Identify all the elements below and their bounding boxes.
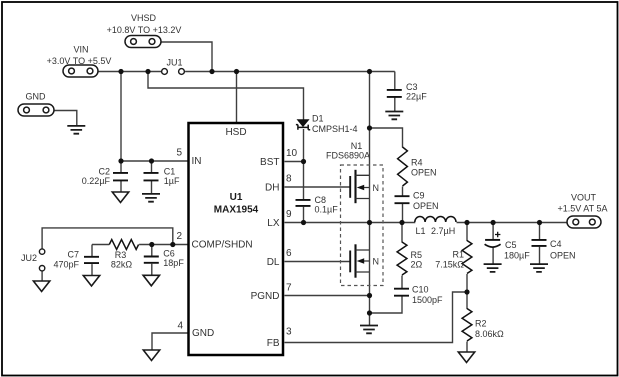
- node VIN-C2 junction: [118, 69, 123, 74]
- capacitor C4: [532, 239, 576, 261]
- capacitor C3: [387, 82, 427, 102]
- svg-text:C6: C6: [163, 249, 175, 259]
- wire VIN to IN node: [120, 72, 122, 162]
- inductor L1: [415, 217, 456, 237]
- svg-text:U1: U1: [230, 192, 243, 203]
- jumper JU2: [21, 249, 45, 271]
- svg-text:OPEN: OPEN: [411, 168, 437, 178]
- connector VIN: [47, 45, 112, 78]
- svg-text:VOUT: VOUT: [571, 193, 597, 203]
- wire C4 stems: [539, 223, 541, 265]
- node R4 branch junction: [367, 125, 372, 130]
- svg-text:JU2: JU2: [21, 253, 37, 263]
- svg-text:+1.5V AT 5A: +1.5V AT 5A: [558, 204, 608, 214]
- wire C1 stems: [151, 161, 153, 194]
- node LX-R1 junction: [464, 220, 469, 225]
- svg-text:BST: BST: [260, 157, 279, 168]
- wire IN pin5: [121, 160, 188, 162]
- capacitor C9: [395, 191, 439, 212]
- wire HSD drop: [236, 72, 238, 124]
- jumper JU1: [162, 58, 185, 75]
- wire GND connector stem: [55, 111, 77, 126]
- IC U1 MAX1954: [189, 123, 284, 355]
- svg-text:L1: L1: [416, 226, 426, 236]
- wire C3 ground stem: [394, 97, 396, 112]
- resistor R4: [398, 147, 437, 186]
- wire C6 stems: [151, 245, 153, 276]
- ground GND pin4 triangle: [143, 350, 159, 361]
- wire C2 stems: [120, 161, 122, 193]
- svg-text:PGND: PGND: [251, 291, 280, 302]
- node COMP-C6 junction: [149, 242, 154, 247]
- capacitor C10: [394, 285, 443, 306]
- node LX-R4 junction: [399, 220, 404, 225]
- wire R2 leads: [466, 292, 468, 353]
- wire N1 drain column: [369, 72, 371, 314]
- resistor R1: [435, 241, 472, 274]
- node IN-C1 junction: [149, 158, 154, 163]
- svg-text:C2: C2: [98, 167, 110, 177]
- svg-text:C7: C7: [67, 250, 79, 260]
- wire VHSD drop: [162, 42, 213, 72]
- ground C6 triangle: [143, 275, 159, 286]
- wire C5 stems: [492, 223, 494, 265]
- wire R4 branch: [370, 128, 403, 223]
- connector VOUT: [558, 193, 608, 229]
- ground C1: [142, 194, 160, 202]
- ground R2 triangle: [458, 352, 474, 363]
- capacitor C6: [144, 249, 185, 269]
- svg-text:R1: R1: [452, 250, 464, 260]
- ground GND connector: [67, 126, 85, 134]
- diode D1 CMPSH1-4: [296, 114, 358, 134]
- svg-text:C5: C5: [505, 240, 517, 250]
- ground JU2 triangle: [33, 281, 49, 292]
- svg-text:82kΩ: 82kΩ: [111, 260, 133, 270]
- svg-text:0.1µF: 0.1µF: [315, 205, 339, 215]
- svg-text:C3: C3: [406, 82, 418, 92]
- wire R5 C10 branch: [370, 223, 403, 314]
- wire PGND: [285, 295, 370, 297]
- wire GND pin4: [152, 333, 188, 351]
- svg-text:HSD: HSD: [225, 127, 246, 138]
- svg-text:OPEN: OPEN: [550, 251, 576, 261]
- transistor N1 upper MOSFET: [350, 170, 379, 203]
- svg-text:DH: DH: [265, 183, 279, 194]
- resistor R3: [109, 240, 138, 270]
- wire DL to lower gate: [285, 261, 350, 263]
- node VIN-D1 junction: [145, 69, 150, 74]
- ground C2 triangle: [112, 192, 128, 203]
- svg-text:+10.8V TO +13.2V: +10.8V TO +13.2V: [107, 25, 182, 35]
- ground C4: [530, 264, 548, 272]
- svg-text:1500pF: 1500pF: [412, 295, 443, 305]
- svg-text:10: 10: [286, 148, 298, 159]
- wire VIN to D1 anode: [148, 72, 304, 121]
- node VOUT-C4 junction: [537, 220, 542, 225]
- wire JU2 ground stem: [41, 271, 43, 281]
- svg-text:18pF: 18pF: [163, 258, 184, 268]
- wire LX rail: [285, 222, 568, 224]
- node N1 drain top junction: [367, 69, 372, 74]
- svg-text:C10: C10: [412, 285, 429, 295]
- svg-text:N1: N1: [351, 141, 363, 151]
- svg-text:6: 6: [286, 248, 292, 259]
- svg-text:3: 3: [286, 327, 292, 338]
- capacitor C1: [144, 167, 180, 187]
- svg-text:C8: C8: [315, 195, 327, 205]
- svg-text:IN: IN: [192, 156, 202, 167]
- svg-text:8: 8: [286, 174, 292, 185]
- wire C7 stems: [91, 245, 93, 277]
- svg-text:GND: GND: [26, 92, 47, 102]
- wire JU2 loop: [42, 228, 173, 250]
- svg-text:N: N: [373, 257, 380, 267]
- wire PGND ground stem: [369, 313, 371, 326]
- svg-text:FDS6890A: FDS6890A: [326, 151, 370, 161]
- resistor R2: [462, 309, 504, 342]
- node C10 return junction: [367, 310, 372, 315]
- svg-text:8.06kΩ: 8.06kΩ: [475, 329, 504, 339]
- svg-text:OPEN: OPEN: [413, 201, 439, 211]
- svg-text:JU1: JU1: [166, 58, 182, 68]
- node IN-C2 junction: [118, 158, 123, 163]
- svg-text:D1: D1: [312, 114, 324, 124]
- node VOUT-C5 junction: [491, 220, 496, 225]
- capacitor C8: [296, 195, 339, 215]
- wire FB to R2 node: [285, 292, 468, 343]
- ground C7 triangle: [83, 276, 99, 287]
- node FB-R2 junction: [464, 289, 469, 294]
- svg-text:VIN: VIN: [73, 45, 88, 55]
- svg-text:1µF: 1µF: [164, 176, 180, 186]
- svg-text:R4: R4: [411, 158, 423, 168]
- wire R1 leads: [466, 223, 468, 293]
- svg-text:22µF: 22µF: [406, 92, 427, 102]
- svg-text:DL: DL: [267, 257, 280, 268]
- svg-text:9: 9: [286, 209, 292, 220]
- capacitor C2: [82, 167, 128, 187]
- wire DH to upper gate: [285, 186, 350, 188]
- svg-text:MAX1954: MAX1954: [214, 205, 259, 216]
- wire C3 drop: [394, 72, 396, 90]
- capacitor C5 polarized: [485, 232, 531, 261]
- connector GND: [18, 92, 54, 117]
- svg-text:C1: C1: [164, 167, 176, 177]
- svg-text:2Ω: 2Ω: [411, 260, 423, 270]
- svg-text:4: 4: [177, 321, 183, 332]
- svg-text:2.7µH: 2.7µH: [431, 226, 455, 236]
- capacitor C7: [53, 250, 99, 270]
- svg-text:470pF: 470pF: [53, 260, 79, 270]
- ground PGND: [360, 326, 378, 334]
- svg-text:R5: R5: [411, 250, 423, 260]
- node PGND junction: [367, 293, 372, 298]
- wire VIN bus: [99, 71, 395, 73]
- svg-text:FB: FB: [267, 338, 280, 349]
- wire COMP/SHDN pin2: [92, 244, 188, 246]
- svg-text:C4: C4: [550, 239, 562, 249]
- node COMP-JU2 junction: [170, 242, 175, 247]
- node BST junction: [301, 159, 306, 164]
- svg-text:180µF: 180µF: [504, 251, 530, 261]
- svg-text:2: 2: [176, 231, 182, 242]
- resistor R5: [397, 242, 422, 275]
- wire D1 cathode to BST: [285, 129, 304, 162]
- svg-text:VHSD: VHSD: [131, 13, 157, 23]
- svg-text:+3.0V TO +5.5V: +3.0V TO +5.5V: [47, 56, 112, 66]
- N1 dashed box: [341, 165, 384, 286]
- svg-text:N: N: [373, 183, 380, 193]
- svg-text:GND: GND: [192, 328, 214, 339]
- node HSD junction: [234, 69, 239, 74]
- node LX-C8 junction: [301, 220, 306, 225]
- svg-text:R2: R2: [475, 319, 487, 329]
- transistor N1 lower MOSFET: [350, 244, 379, 277]
- ground C3: [385, 112, 403, 120]
- wire BST to C8 and C8 to LX: [303, 162, 305, 223]
- svg-text:CMPSH1-4: CMPSH1-4: [312, 124, 358, 134]
- node LX-FET junction: [367, 220, 372, 225]
- svg-text:C9: C9: [413, 191, 425, 201]
- svg-text:7: 7: [286, 283, 292, 294]
- svg-text:0.22µF: 0.22µF: [82, 176, 111, 186]
- svg-text:R3: R3: [115, 250, 127, 260]
- ground C5: [484, 264, 502, 272]
- connector VHSD: [107, 13, 182, 48]
- svg-text:COMP/SHDN: COMP/SHDN: [192, 240, 253, 251]
- svg-text:5: 5: [176, 148, 182, 159]
- svg-text:LX: LX: [267, 218, 280, 229]
- node VHSD junction: [209, 69, 214, 74]
- svg-text:7.15kΩ: 7.15kΩ: [435, 260, 464, 270]
